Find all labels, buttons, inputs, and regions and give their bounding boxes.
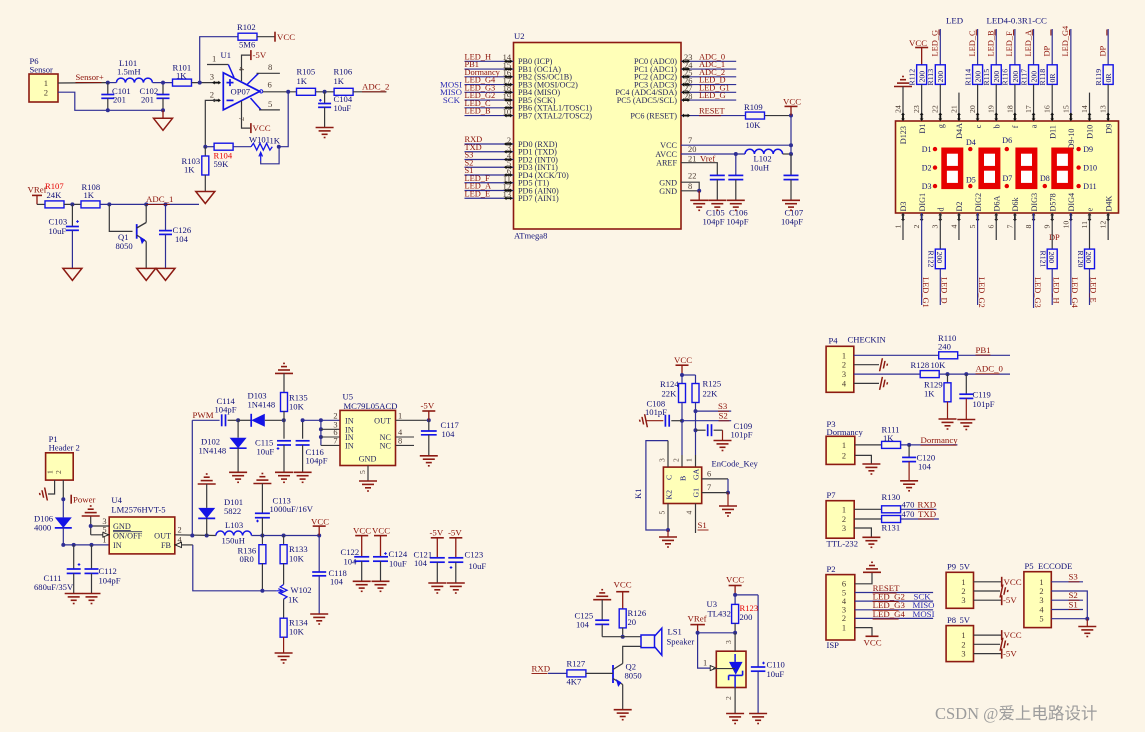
wire P6 pin1 to node (58, 82, 108, 84)
svg-text:C122: C122 (341, 547, 360, 557)
svg-text:2: 2 (724, 696, 733, 700)
resistor R121 200 (1051, 213, 1053, 250)
svg-text:PB7 (XTAL2/TOSC2): PB7 (XTAL2/TOSC2) (518, 111, 592, 120)
Q1 emitter to ground (145, 242, 147, 269)
Q2 emitter to ground (622, 685, 624, 710)
svg-text:TTL-232: TTL-232 (827, 539, 859, 549)
svg-text:DIG2: DIG2 (974, 193, 983, 212)
stub at display pin 12 (1107, 213, 1109, 240)
resistor R108 (81, 201, 100, 208)
svg-text:LED_B: LED_B (465, 107, 491, 116)
resistor R113 200 (939, 29, 941, 65)
svg-text:RXD: RXD (918, 499, 937, 509)
svg-text:5: 5 (968, 225, 977, 229)
svg-text:1K: 1K (288, 595, 299, 605)
svg-text:LED_G: LED_G (931, 30, 940, 57)
P5 pin2 wire down right side (1051, 591, 1087, 619)
svg-text:VCC: VCC (660, 141, 677, 150)
ground under R134 (275, 652, 293, 654)
svg-text:LS1: LS1 (668, 627, 682, 637)
op-amp pin 7 to VCC (242, 101, 251, 128)
FB wire down to W102 wiper (193, 545, 276, 591)
connector P5 ECCODE (1024, 572, 1051, 628)
svg-text:VCC: VCC (372, 525, 390, 535)
resistor R135 10K with ground above (275, 372, 293, 374)
svg-text:104pF: 104pF (215, 405, 237, 415)
svg-text:LED_G1: LED_G1 (921, 277, 930, 308)
ground under C105 (708, 199, 726, 201)
diode D101 5822 with ground above (198, 483, 216, 485)
svg-text:R124: R124 (660, 379, 679, 389)
svg-text:NC: NC (380, 441, 392, 450)
svg-text:21: 21 (949, 105, 958, 113)
resistor R110 240 (939, 352, 958, 359)
svg-text:LED_G4: LED_G4 (1061, 25, 1070, 57)
svg-text:2: 2 (1039, 587, 1043, 596)
svg-text:9: 9 (1043, 225, 1052, 229)
svg-text:7: 7 (1005, 225, 1014, 229)
svg-text:DP: DP (1043, 45, 1052, 56)
resistor R104 red label (214, 143, 233, 150)
P3 pin1 wire to R111 (855, 444, 882, 446)
svg-text:0R: 0R (1104, 73, 1113, 83)
svg-text:P4: P4 (829, 335, 839, 345)
svg-text:104pF: 104pF (306, 456, 328, 466)
capacitor C115 10uF polarized (283, 420, 285, 438)
P5 pin5 wire to ground (1051, 618, 1087, 620)
svg-text:OP07: OP07 (231, 87, 251, 97)
svg-text:20: 20 (968, 105, 977, 113)
resistor R134 10K (283, 599, 285, 618)
svg-text:3: 3 (931, 225, 940, 229)
capacitor C119 101pF to ground (965, 374, 967, 394)
microcontroller U2 ATmega8 (514, 43, 682, 230)
display DS1 LED4-0.3R1-CC body (896, 121, 1119, 213)
wire R105 to R106 (316, 91, 334, 93)
svg-text:8: 8 (1024, 225, 1033, 229)
svg-text:LED_F: LED_F (1005, 31, 1014, 56)
svg-text:LED_A: LED_A (1024, 30, 1033, 57)
seven-segment digit 2 (978, 148, 1000, 190)
svg-text:2: 2 (210, 90, 214, 100)
zener symbol inside TL432 (734, 654, 736, 662)
wire input row to U4 (63, 544, 109, 546)
svg-text:1.5mH: 1.5mH (117, 67, 141, 77)
capacitor C102 (162, 83, 164, 95)
svg-text:R106: R106 (334, 67, 353, 77)
PWM wire down to OUT node (191, 420, 193, 535)
svg-text:3: 3 (1039, 596, 1043, 605)
svg-text:-5V: -5V (430, 528, 444, 538)
svg-text:U2: U2 (514, 31, 525, 41)
transistor Q2 8050 (612, 665, 614, 683)
ground under C104 (316, 127, 334, 129)
svg-text:4K7: 4K7 (567, 677, 583, 687)
ground under C106 (727, 199, 745, 201)
svg-text:1K: 1K (184, 165, 195, 175)
svg-text:16: 16 (1043, 105, 1052, 113)
ground under C107 (782, 199, 800, 201)
svg-text:C110: C110 (767, 660, 785, 670)
diode D103 1N4148 (238, 419, 251, 421)
svg-text:4: 4 (237, 67, 246, 71)
P8 pin2 to signal ground (974, 643, 1001, 645)
svg-text:-5V: -5V (1003, 649, 1017, 659)
wire R106 to ADC_2 (353, 91, 387, 93)
resistor R128 10K (920, 371, 939, 378)
wire L103 to VCC node (252, 535, 320, 537)
svg-text:104pF: 104pF (703, 217, 725, 227)
TL432 pin 3 wire (734, 633, 736, 651)
P2 pin1 to VCC below (855, 628, 872, 637)
svg-text:10: 10 (1061, 221, 1070, 229)
svg-text:Header 2: Header 2 (49, 443, 80, 453)
svg-text:104: 104 (442, 429, 456, 439)
svg-text:FB: FB (161, 541, 172, 550)
potentiometer W102 1K (280, 585, 287, 600)
svg-text:EnCode_Key: EnCode_Key (712, 459, 759, 469)
P8 pin3 to -5V (974, 653, 1002, 655)
inductor L103 (216, 531, 252, 535)
svg-text:CHECKIN: CHECKIN (848, 335, 887, 345)
svg-text:S3: S3 (718, 401, 728, 411)
svg-text:5: 5 (358, 470, 367, 474)
connector P9 5V (946, 572, 973, 608)
resistor R103 vertical (204, 147, 206, 156)
wire R101 to op-amp node (192, 82, 221, 84)
svg-text:MC79L05ACD: MC79L05ACD (344, 401, 398, 411)
svg-text:d: d (937, 207, 946, 211)
wire R107 to R108 (64, 203, 81, 205)
svg-text:2: 2 (842, 614, 846, 623)
svg-text:10uF: 10uF (767, 669, 785, 679)
svg-text:1: 1 (1039, 578, 1043, 587)
svg-text:7: 7 (333, 436, 337, 445)
P2 pin3 LED_G3 MISO wire (855, 609, 933, 611)
svg-text:200: 200 (1084, 252, 1093, 264)
P9 pin2 to signal ground (974, 590, 1001, 592)
P4 pin2 to signal ground (854, 364, 879, 366)
svg-text:2: 2 (44, 88, 48, 98)
svg-text:R112: R112 (907, 69, 916, 86)
capacitor C110 10uF polarized (751, 666, 766, 668)
P2 pin5 RESET wire (855, 592, 933, 594)
svg-text:104pF: 104pF (99, 576, 121, 586)
svg-text:1: 1 (961, 578, 965, 587)
feedback wire from output down to W101 node (279, 92, 288, 147)
capacitor C107 (790, 154, 792, 175)
seven-segment digit 3 (1015, 148, 1037, 190)
svg-text:8050: 8050 (625, 671, 642, 681)
svg-text:1: 1 (212, 54, 216, 64)
P2 pin2 LED_G4 MOSI wire (855, 617, 933, 619)
svg-text:10K: 10K (289, 627, 305, 637)
resistor R119 0R (1107, 29, 1109, 65)
svg-text:104: 104 (175, 234, 189, 244)
svg-text:VRef: VRef (28, 185, 47, 195)
svg-text:1N4148: 1N4148 (199, 446, 227, 456)
wire VCC node to R125 column (682, 374, 696, 376)
ground under C110 (749, 713, 767, 715)
resistor R123 200 red label (734, 595, 736, 605)
TL432 body U3 (716, 651, 746, 687)
svg-text:Sensor+: Sensor+ (76, 72, 104, 82)
inductor L102 (745, 149, 783, 154)
svg-text:201: 201 (141, 95, 154, 105)
svg-text:C103: C103 (49, 217, 68, 227)
svg-text:S3: S3 (1069, 572, 1079, 582)
stub at display pin 6 (995, 213, 997, 240)
speaker LS1 (623, 636, 641, 638)
op-amp pin 5 stub (251, 98, 262, 110)
stub at display pin 21 (958, 93, 960, 113)
svg-text:2: 2 (912, 225, 921, 229)
svg-text:104: 104 (414, 558, 428, 568)
svg-text:ADC_0: ADC_0 (976, 364, 1004, 374)
svg-text:2: 2 (333, 411, 337, 420)
svg-text:R118: R118 (1038, 69, 1047, 86)
svg-text:2: 2 (842, 451, 846, 460)
svg-text:1000uF/16V: 1000uF/16V (270, 504, 314, 514)
svg-text:B: B (679, 476, 688, 481)
svg-text:g: g (937, 124, 946, 128)
svg-text:ISP: ISP (827, 640, 840, 650)
svg-text:D9: D9 (1104, 124, 1113, 134)
svg-text:K1: K1 (633, 488, 643, 499)
seven-segment digit 1 (941, 148, 963, 190)
svg-text:R125: R125 (703, 379, 722, 389)
svg-text:S1: S1 (698, 520, 707, 530)
svg-text:VCC: VCC (909, 38, 927, 48)
svg-text:7: 7 (688, 136, 692, 145)
svg-text:S2: S2 (719, 411, 728, 421)
svg-text:1K: 1K (883, 433, 894, 443)
P4 pin3 wire to R128 (854, 373, 921, 375)
ground under C126 (156, 268, 175, 280)
svg-text:RESET: RESET (699, 107, 725, 116)
svg-text:11: 11 (1080, 221, 1089, 229)
svg-text:D9: D9 (1083, 145, 1093, 154)
op-amp pin 3 arrow and number (212, 81, 221, 85)
svg-text:24: 24 (893, 105, 902, 113)
svg-text:104: 104 (918, 462, 932, 472)
regulator U5 MC79L05ACD (340, 410, 396, 465)
stub at display pin 7 (1014, 213, 1016, 240)
op-amp U1 OP07 (223, 73, 259, 110)
wire VCC node down (790, 116, 792, 176)
svg-text:DIG3: DIG3 (1030, 193, 1039, 212)
svg-text:R127: R127 (567, 659, 586, 669)
svg-text:S1: S1 (1069, 599, 1078, 609)
svg-text:GND: GND (113, 522, 131, 531)
svg-text:13: 13 (1099, 105, 1108, 113)
op-amp pin 4 to -5V (242, 55, 251, 81)
svg-text:VCC: VCC (674, 355, 692, 365)
svg-text:LED_B: LED_B (987, 30, 996, 56)
svg-text:LED: LED (946, 16, 963, 26)
capacitor C120 104 to ground (908, 445, 910, 458)
svg-text:1: 1 (703, 658, 707, 667)
resistor R105 (297, 88, 316, 95)
connector P7 TTL-232 (826, 501, 854, 539)
resistor R131 470 (854, 518, 881, 520)
P7 pin3 to ground (854, 528, 871, 537)
svg-text:GND: GND (659, 187, 677, 196)
diode D106 4000 (62, 499, 64, 517)
svg-text:TL432: TL432 (708, 608, 731, 618)
svg-text:D10: D10 (1083, 163, 1097, 172)
svg-text:-5V: -5V (1003, 595, 1017, 605)
ground under C118 (310, 613, 328, 615)
svg-text:D1: D1 (918, 124, 927, 134)
svg-text:14: 14 (1080, 105, 1089, 113)
capacitor C109 101pF to ground (696, 429, 706, 431)
svg-text:1: 1 (44, 78, 48, 88)
wire VRef to R123 node (698, 632, 736, 634)
regulator U4 LM2576HVT-5 (109, 517, 175, 554)
wire VCC node to C110 column (735, 594, 758, 596)
resistor R107 red label (45, 201, 64, 208)
svg-text:10uF: 10uF (389, 559, 407, 569)
P8 pin1 to VCC (974, 634, 1002, 636)
svg-text:1: 1 (961, 631, 965, 640)
capacitor C106 (735, 154, 737, 175)
ground under C103 (63, 268, 82, 280)
svg-text:20: 20 (688, 145, 696, 154)
svg-text:P8: P8 (947, 615, 956, 625)
svg-text:10uF: 10uF (257, 447, 275, 457)
wire to U5 inputs (303, 419, 340, 421)
svg-text:4: 4 (685, 511, 694, 515)
P4 pin1 wire to R110 (854, 354, 939, 356)
svg-text:Speaker: Speaker (667, 637, 695, 647)
svg-text:RXD: RXD (532, 663, 551, 673)
svg-text:R122: R122 (927, 251, 936, 268)
svg-text:OUT: OUT (374, 416, 391, 425)
ground under U2 GND pins (698, 191, 700, 201)
wire R127 to Q2 base (586, 672, 613, 674)
svg-text:104: 104 (344, 557, 358, 567)
op-amp pin 1 stub (207, 64, 228, 66)
wire at display pin 15 (1070, 29, 1072, 113)
ground at display pin 24 (894, 86, 912, 88)
P1 pin1 wire to signal ground (48, 480, 55, 494)
svg-text:R128: R128 (911, 360, 930, 370)
svg-text:470: 470 (902, 500, 915, 510)
svg-text:e: e (1086, 208, 1095, 212)
svg-text:VRef: VRef (688, 614, 707, 624)
svg-text:2: 2 (672, 458, 681, 462)
svg-text:1K: 1K (176, 71, 187, 81)
svg-text:LED_D: LED_D (940, 277, 949, 304)
capacitor C101 (107, 83, 109, 95)
svg-text:8050: 8050 (116, 241, 133, 251)
svg-text:0R0: 0R0 (240, 554, 254, 564)
capacitor C103 polarized (71, 204, 73, 226)
svg-text:240: 240 (938, 342, 951, 352)
svg-text:C: C (665, 475, 674, 480)
ground under encoder pins 6/7 (727, 493, 729, 506)
resistor R127 4K7 (567, 670, 586, 677)
svg-text:7: 7 (707, 483, 711, 492)
svg-text:2: 2 (54, 470, 63, 474)
resistor R114 200 (977, 29, 979, 65)
svg-text:D7: D7 (1003, 174, 1013, 183)
svg-text:LED_G2: LED_G2 (977, 277, 986, 308)
svg-text:R114: R114 (963, 69, 972, 86)
svg-text:R102: R102 (237, 22, 256, 32)
resistor R102 (238, 33, 257, 40)
capacitor C104 polarized (324, 92, 326, 104)
P9 pin3 to -5V (974, 599, 1002, 601)
inductor L101 (116, 78, 152, 83)
connector P4 CHECKIN (826, 346, 854, 392)
potentiometer W101 (251, 143, 272, 150)
svg-text:0R: 0R (1048, 73, 1057, 83)
decimal dot D8 (1043, 184, 1047, 188)
resistor R112 200 (917, 65, 927, 85)
resistor R129 1K to ground (947, 374, 949, 383)
svg-text:C124: C124 (389, 549, 408, 559)
svg-text:101pF: 101pF (973, 399, 995, 409)
transistor Q1 8050 (109, 204, 132, 231)
connector P1 Header 2 (46, 453, 74, 480)
resistor R124 22K (679, 384, 686, 403)
wire R110 to PB1 (958, 354, 1010, 356)
svg-text:VCC: VCC (1004, 577, 1022, 587)
svg-text:1K: 1K (297, 76, 308, 86)
svg-text:3: 3 (210, 72, 214, 82)
decimal dots D1 D2 D3 (933, 147, 937, 151)
ground above U4 pins 3/5 (82, 515, 100, 517)
svg-text:-5V: -5V (421, 401, 435, 411)
svg-text:200: 200 (936, 71, 945, 83)
svg-text:2: 2 (961, 587, 965, 596)
svg-text:LM2576HVT-5: LM2576HVT-5 (111, 505, 165, 515)
svg-text:5: 5 (658, 511, 667, 515)
svg-text:1K: 1K (270, 136, 281, 146)
svg-text:PB1: PB1 (976, 345, 991, 355)
svg-text:5822: 5822 (224, 506, 241, 516)
wire R102 to VCC port (257, 36, 275, 38)
svg-text:DIG4: DIG4 (1067, 193, 1076, 212)
resistor R106 (334, 88, 353, 95)
seven-segment digit 4 (1051, 148, 1073, 190)
svg-text:R131: R131 (882, 523, 901, 533)
svg-text:GND: GND (359, 455, 377, 464)
power port VCC at R102 (274, 32, 276, 42)
power port Power (70, 495, 72, 504)
ground under encoder loop (667, 530, 669, 537)
svg-text:D2: D2 (955, 201, 964, 211)
net label S2 wire (682, 420, 731, 422)
resistor R136 0R0 (261, 536, 263, 546)
svg-text:LED_G4: LED_G4 (873, 609, 906, 619)
svg-text:R109: R109 (744, 102, 763, 112)
svg-text:DP: DP (1049, 233, 1060, 242)
ground under C112 (83, 593, 101, 595)
wire node up to R102 (200, 37, 238, 83)
capacitor C112 (91, 545, 93, 569)
svg-text:3: 3 (102, 517, 106, 526)
svg-text:8: 8 (688, 182, 692, 191)
TL432 pin 2 to ground (734, 688, 736, 714)
svg-text:10K: 10K (746, 120, 762, 130)
svg-text:D6k: D6k (1011, 196, 1020, 211)
svg-text:10uF: 10uF (469, 561, 487, 571)
stub at display pin 1 (902, 213, 904, 240)
svg-text:SCK: SCK (443, 95, 461, 105)
